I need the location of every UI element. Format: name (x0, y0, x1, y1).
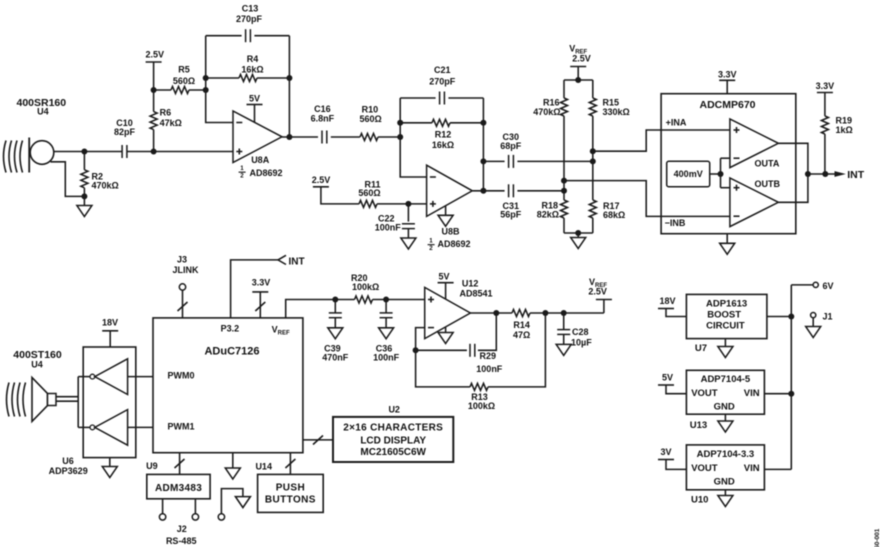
svg-text:AD8541: AD8541 (460, 289, 493, 299)
svg-text:560Ω: 560Ω (359, 114, 381, 124)
svg-text:400mV: 400mV (674, 169, 703, 179)
svg-text:BOOST: BOOST (707, 310, 741, 321)
svg-text:3.3V: 3.3V (252, 278, 271, 288)
svg-text:U8B: U8B (442, 227, 461, 237)
svg-text:U2: U2 (388, 405, 400, 415)
svg-text:ADP1613: ADP1613 (706, 299, 747, 310)
svg-text:2.5V: 2.5V (312, 175, 331, 185)
svg-text:1: 1 (429, 238, 433, 245)
svg-text:2.5V: 2.5V (588, 287, 607, 297)
svg-text:U4: U4 (31, 360, 43, 370)
svg-text:RS-485: RS-485 (166, 536, 197, 546)
svg-text:PUSH: PUSH (276, 483, 305, 494)
svg-text:5V: 5V (662, 373, 673, 383)
svg-text:R19: R19 (836, 116, 853, 126)
svg-text:R15: R15 (603, 98, 620, 108)
svg-text:82kΩ: 82kΩ (537, 210, 559, 220)
svg-text:47kΩ: 47kΩ (160, 118, 182, 128)
svg-text:OUTA: OUTA (755, 159, 780, 169)
svg-text:10µF: 10µF (571, 338, 592, 348)
svg-text:U8A: U8A (251, 155, 270, 165)
svg-text:OUTB: OUTB (755, 179, 781, 189)
svg-text:U6: U6 (62, 456, 74, 466)
svg-text:ADuC7126: ADuC7126 (204, 345, 259, 357)
svg-text:R10: R10 (362, 105, 379, 115)
svg-text:16kΩ: 16kΩ (241, 65, 263, 75)
svg-text:68kΩ: 68kΩ (603, 210, 625, 220)
svg-text:2.5V: 2.5V (572, 54, 591, 64)
svg-text:560Ω: 560Ω (358, 188, 380, 198)
svg-text:U13: U13 (690, 420, 707, 431)
svg-text:J1: J1 (823, 312, 833, 322)
svg-text:2.5V: 2.5V (146, 50, 165, 60)
svg-text:560Ω: 560Ω (173, 76, 195, 86)
svg-text:CIRCUIT: CIRCUIT (706, 321, 745, 332)
svg-text:3.3V: 3.3V (718, 70, 737, 80)
svg-text:J2: J2 (177, 524, 187, 534)
svg-text:C28: C28 (572, 327, 589, 337)
svg-text:R29: R29 (480, 351, 497, 361)
svg-text:MC21605C6W: MC21605C6W (360, 447, 426, 458)
svg-text:−INB: −INB (665, 218, 686, 228)
svg-text:LCD DISPLAY: LCD DISPLAY (360, 435, 426, 446)
svg-text:270pF: 270pF (429, 77, 456, 87)
svg-text:2: 2 (240, 173, 244, 180)
svg-text:U10: U10 (691, 495, 708, 506)
svg-text:AD8692: AD8692 (250, 168, 283, 178)
svg-text:VOUT: VOUT (691, 388, 718, 399)
svg-text:5V: 5V (438, 272, 449, 282)
svg-text:6.8nF: 6.8nF (311, 114, 335, 124)
svg-text:GND: GND (714, 402, 735, 413)
svg-text:ADP3629: ADP3629 (49, 466, 88, 476)
svg-text:U7: U7 (695, 343, 707, 354)
svg-text:GND: GND (714, 477, 735, 488)
svg-text:18V: 18V (102, 318, 118, 328)
svg-text:+INA: +INA (666, 118, 687, 128)
svg-text:330kΩ: 330kΩ (603, 107, 630, 117)
svg-text:P3.2: P3.2 (221, 324, 240, 334)
svg-text:R6: R6 (160, 108, 172, 118)
svg-text:470kΩ: 470kΩ (533, 107, 560, 117)
svg-text:47Ω: 47Ω (513, 330, 530, 340)
svg-text:R16: R16 (543, 98, 560, 108)
svg-text:R4: R4 (247, 54, 259, 64)
svg-text:470kΩ: 470kΩ (92, 181, 119, 191)
svg-text:ADP7104-3.3: ADP7104-3.3 (697, 449, 755, 460)
svg-text:J3: J3 (177, 255, 187, 265)
svg-text:JLINK: JLINK (172, 265, 199, 275)
svg-text:3V: 3V (660, 447, 671, 457)
svg-text:5V: 5V (249, 94, 260, 104)
svg-text:U4: U4 (37, 107, 49, 117)
svg-text:R5: R5 (178, 65, 190, 75)
svg-text:11760-001: 11760-001 (874, 528, 881, 547)
svg-text:270pF: 270pF (236, 14, 263, 24)
svg-text:ADCMP670: ADCMP670 (699, 99, 755, 111)
svg-text:100kΩ: 100kΩ (352, 282, 379, 292)
svg-text:AD8692: AD8692 (438, 239, 471, 249)
svg-text:R14: R14 (513, 320, 530, 330)
svg-text:C16: C16 (314, 104, 331, 114)
svg-text:VIN: VIN (744, 388, 760, 399)
svg-text:18V: 18V (659, 296, 675, 306)
svg-text:U9: U9 (146, 461, 158, 471)
svg-text:100nF: 100nF (373, 353, 400, 363)
svg-text:470nF: 470nF (322, 353, 349, 363)
svg-text:56pF: 56pF (500, 210, 522, 220)
svg-text:BUTTONS: BUTTONS (265, 495, 316, 506)
svg-text:16kΩ: 16kΩ (432, 140, 454, 150)
svg-text:100nF: 100nF (375, 222, 402, 232)
svg-text:VREF: VREF (272, 325, 290, 337)
svg-text:68pF: 68pF (500, 141, 522, 151)
svg-text:U12: U12 (462, 279, 479, 289)
svg-text:ADP7104-5: ADP7104-5 (701, 374, 751, 385)
svg-text:C13: C13 (242, 4, 259, 14)
svg-text:VOUT: VOUT (691, 463, 718, 474)
svg-text:VIN: VIN (744, 463, 760, 474)
svg-text:2×16 CHARACTERS: 2×16 CHARACTERS (343, 423, 443, 434)
svg-text:1: 1 (240, 165, 244, 172)
svg-text:INT: INT (289, 256, 305, 267)
svg-text:PWM1: PWM1 (168, 422, 195, 432)
svg-text:6V: 6V (823, 281, 834, 291)
svg-text:ADM3483: ADM3483 (155, 483, 202, 494)
svg-text:PWM0: PWM0 (168, 371, 195, 381)
svg-text:100nF: 100nF (476, 364, 503, 374)
svg-text:INT: INT (847, 169, 865, 181)
svg-text:1kΩ: 1kΩ (836, 125, 853, 135)
svg-text:3.3V: 3.3V (816, 81, 835, 91)
svg-text:2: 2 (429, 245, 433, 252)
svg-text:R12: R12 (435, 130, 452, 140)
svg-text:82pF: 82pF (114, 127, 136, 137)
svg-text:100kΩ: 100kΩ (468, 401, 495, 411)
svg-text:U14: U14 (255, 461, 272, 471)
svg-text:C21: C21 (434, 65, 451, 75)
